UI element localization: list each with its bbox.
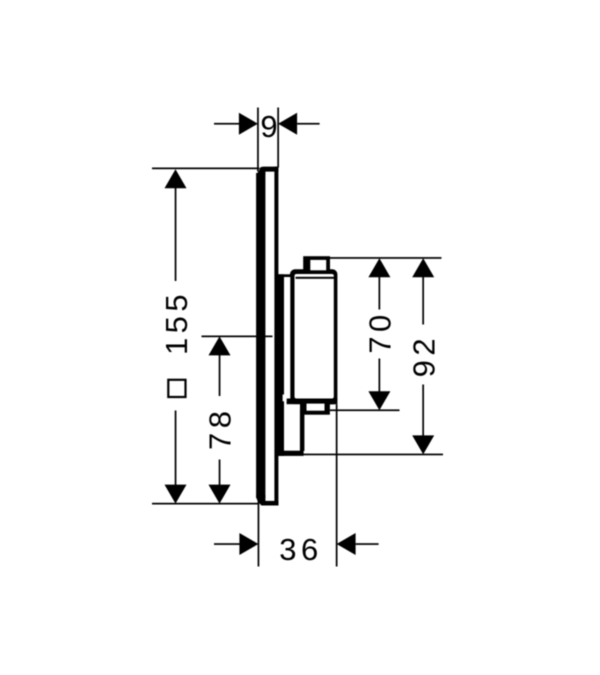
plate bottom cap [261,501,278,506]
right tail of 9 [297,123,320,125]
dimension 70 (right inner) [330,257,442,411]
svg-text:78: 78 [203,407,238,450]
left tail of 9 [214,123,239,125]
left arrow of 9 [239,113,258,135]
plate top chamfer [256,168,265,175]
plate bottom chamfer [256,495,265,505]
dimension 78 (left inner) [202,336,273,504]
flange fat bar (behind plate) [275,274,285,456]
plate front face bar [256,173,265,498]
centre reference line [202,336,273,338]
155 line lower segment [175,411,177,486]
body outer [290,269,337,404]
plate top cap [259,167,278,172]
70 top arrow [368,258,390,277]
92 line lower segment [422,385,424,437]
78 line upper segment [219,354,221,396]
bottom nub [300,400,330,415]
dimension 155 (left) [152,168,259,505]
svg-text:92: 92 [406,334,441,377]
bottom border extension [287,399,338,405]
body interior [295,274,334,399]
36 left tail [214,543,240,545]
36 right extension line [336,404,338,566]
36 right tail [356,543,379,545]
square symbol [168,380,185,397]
pipe interior [284,404,300,450]
top reference line right [330,257,442,259]
155 line upper segment [175,187,177,281]
svg-text:70: 70 [362,310,397,353]
bottom reference line [152,503,259,505]
78 bottom arrow [209,485,231,504]
155 top arrow [165,169,187,188]
extension line left of 9 [257,108,259,172]
70 line lower segment [379,359,381,393]
pipe right wall [300,410,305,451]
cartridge line inside body [296,277,335,279]
flange top cap [275,274,291,277]
92 bottom arrow [412,435,434,454]
36 left arrow [239,533,258,555]
top nub [303,256,330,272]
70 line upper segment [379,276,381,309]
dimension 9 (top) [214,108,320,172]
78 line lower segment [219,460,221,486]
pipe bottom cap [277,451,304,456]
svg-text:9: 9 [260,109,282,144]
bottom nub interior [307,404,325,411]
36 left extension line [258,498,260,567]
plate back face line [274,167,278,506]
flange notch [283,395,287,402]
70 bottom reference line [330,409,400,411]
wall plate side view [256,167,278,506]
extension line right of 9 [277,108,279,168]
70 bottom arrow [368,391,390,410]
78 top arrow [209,336,231,355]
155 bottom arrow [165,485,187,504]
dimension 36 (bottom) [214,404,379,567]
right arrow of 9 [278,113,297,135]
svg-text:155: 155 [159,290,194,355]
valve rough-in body [275,256,338,456]
92 top arrow [412,258,434,277]
svg-text:36: 36 [279,532,322,567]
92 bottom reference line [303,454,443,456]
top reference line [152,168,259,170]
top nub interior [310,260,326,270]
92 line upper segment [422,276,424,324]
dimension 92 (right outer) [303,258,443,455]
flange interior [284,277,290,398]
36 right arrow [337,533,356,555]
